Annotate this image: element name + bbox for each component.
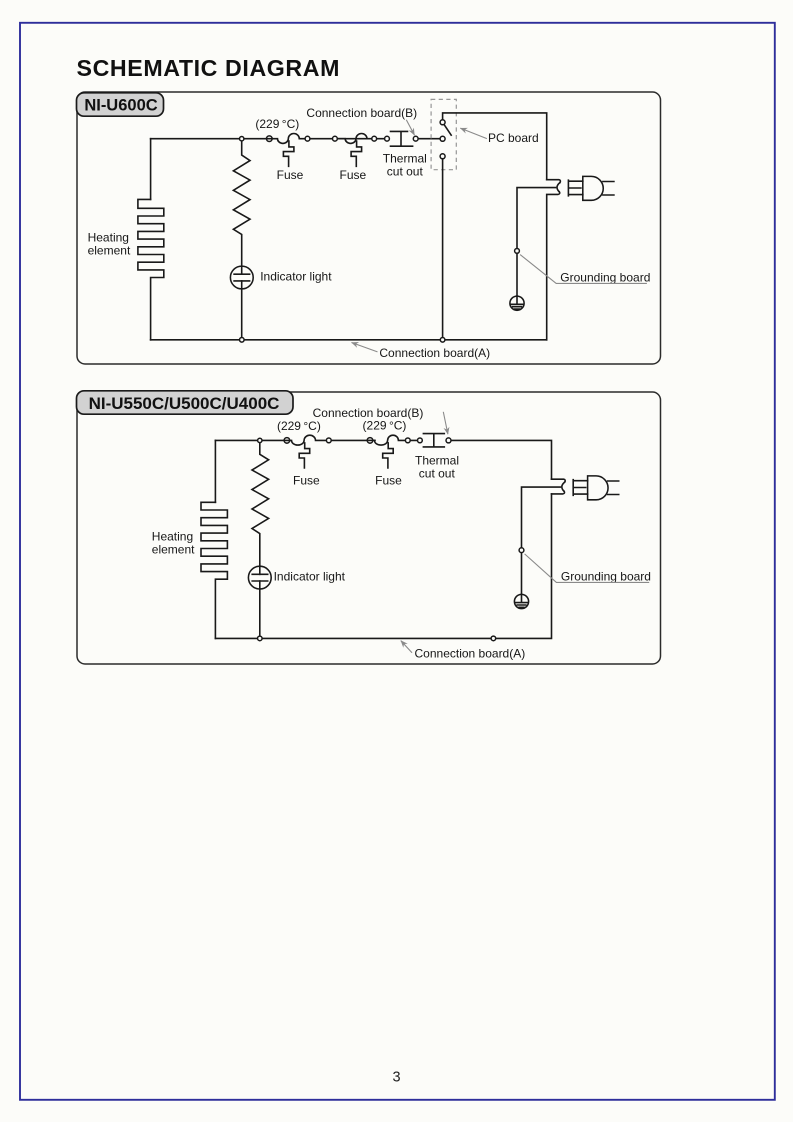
svg-text:NI-U600C: NI-U600C [84,97,157,115]
PC board bottom terminal [440,154,445,159]
leader arrow to connection board(B) terminal [443,412,448,434]
junction node on top bus [240,137,244,141]
leader arrow to connection board(A) [352,343,378,352]
PC board top terminal [440,120,445,125]
plug prongs [608,481,619,495]
earth ground symbol [514,594,528,608]
wire: PC board lower terminal down to bottom bus [442,156,444,339]
svg-text:cut out: cut out [419,467,456,481]
wire: grounding branch [522,487,561,594]
svg-text:Thermal: Thermal [383,151,427,165]
svg-text:NI-U550C/U500C/U400C: NI-U550C/U500C/U400C [89,394,280,413]
cord wires into plug [568,180,582,196]
cord grommet upper [552,479,566,482]
svg-text:Fuse: Fuse [293,473,320,487]
bottom bus node under PC board [440,338,445,343]
wire: gap filler between terminals before cutout [369,439,375,441]
leader arrow to PC board [460,128,487,139]
model badge NI-U550C/U500C/U400C [77,391,294,414]
svg-text:Fuse: Fuse [277,168,304,182]
cord grommet lower [552,491,565,494]
cord grommet lower + right vertical to bottom bus [547,192,560,340]
terminal after fuse F2 [405,438,410,443]
cord break squiggle [562,482,565,491]
svg-text:SCHEMATIC DIAGRAM: SCHEMATIC DIAGRAM [77,55,341,81]
svg-text:3: 3 [393,1070,401,1086]
terminal before thermal cutout [385,136,390,141]
terminal after fuse F2 [372,136,377,141]
fuse F2 hump/dip [335,134,367,144]
junction node on top bus [258,438,262,442]
heating element (meander) [201,502,227,638]
thermal cutout symbol [423,434,444,447]
svg-text:Fuse: Fuse [375,473,402,487]
plug body [583,176,603,200]
svg-text:Indicator light: Indicator light [260,269,332,283]
svg-text:Grounding board: Grounding board [560,270,650,284]
wire: top bus y=138.7 from left corner through fuses [151,134,385,144]
fuse F1 pigtail [299,443,310,468]
wire: after thermal cutout to right corner [451,440,552,479]
PC board middle terminal [440,136,445,141]
thermal cutout symbol [391,131,413,146]
grounding terminal node [519,548,524,553]
svg-text:(229 °C): (229 °C) [363,418,407,432]
wire: left vertical down to heating element [150,139,152,200]
model badge NI-U600C [77,93,164,116]
plug body [588,476,608,500]
leader arrow to connection board(B) terminal [406,120,414,135]
svg-text:Connection board(B): Connection board(B) [306,106,417,120]
switch blade (PC board relay) [444,124,451,135]
wire: bottom bus connection board(A) [215,494,551,639]
svg-text:cut out: cut out [387,165,424,179]
heating element (meander) [138,199,164,339]
terminal after thermal cutout (connection board B) [446,438,451,443]
wire: bottom bus connection board(A) [151,339,547,341]
bottom bus node under indicator [258,636,263,641]
bottom bus node under indicator [240,338,245,343]
fuse F2 pigtail [383,443,394,468]
PC board dashed outline [431,99,456,169]
cord grommet upper [547,180,561,183]
terminal (229C) wire-through [267,136,273,142]
svg-text:PC board: PC board [488,131,539,145]
wire: top bus y=440.4 through both fuses [215,435,420,445]
fuse F2 pigtail [351,141,362,166]
terminal (229C) first wire-through [284,438,290,444]
plug prongs [603,182,614,196]
grounding terminal node [515,249,520,254]
fuse F1 pigtail [283,141,294,166]
cord break squiggle [557,183,560,192]
wire: between thermal cutout and PC board [417,138,440,140]
terminal (229C) second wire-through [367,438,373,444]
svg-text:Thermal: Thermal [415,453,459,467]
svg-text:Heating: Heating [88,231,129,245]
bottom bus terminal node [491,636,496,641]
cord wires into plug [573,480,587,496]
svg-text:Fuse: Fuse [340,168,367,182]
leader line to grounding board [520,255,647,284]
svg-text:Indicator light: Indicator light [274,569,346,583]
terminal before fuse F2 [333,136,338,141]
svg-text:Connection board(A): Connection board(A) [415,647,526,661]
svg-text:Connection board(A): Connection board(A) [379,346,490,360]
indicator light (neon lamp) [230,266,253,289]
terminal after fuse F1 [305,136,310,141]
svg-text:(229 °C): (229 °C) [277,419,321,433]
terminal after thermal cutout [413,136,418,141]
indicator light (neon lamp) [248,566,271,589]
panel box NI-U550C/U500C/U400C [77,392,661,664]
resistor (indicator dropper) [233,140,250,274]
svg-text:element: element [88,244,131,258]
svg-text:Heating: Heating [152,530,193,544]
resistor (indicator dropper) [252,442,269,575]
svg-text:Connection board(B): Connection board(B) [313,406,424,420]
terminal before thermal cutout [418,438,423,443]
wire: left vertical down to heating element [214,440,216,502]
leader line to grounding board [525,554,650,583]
earth ground symbol [510,296,524,310]
leader arrow to connection board(A) [401,641,412,653]
svg-text:Grounding board: Grounding board [561,569,651,583]
panel box NI-U600C [77,92,661,364]
svg-text:(229 °C): (229 °C) [255,117,299,131]
wire: switch top feed to right bus [443,113,547,180]
terminal after fuse F1 [326,438,331,443]
wire: grounding branch [517,188,556,297]
svg-text:element: element [152,543,195,557]
